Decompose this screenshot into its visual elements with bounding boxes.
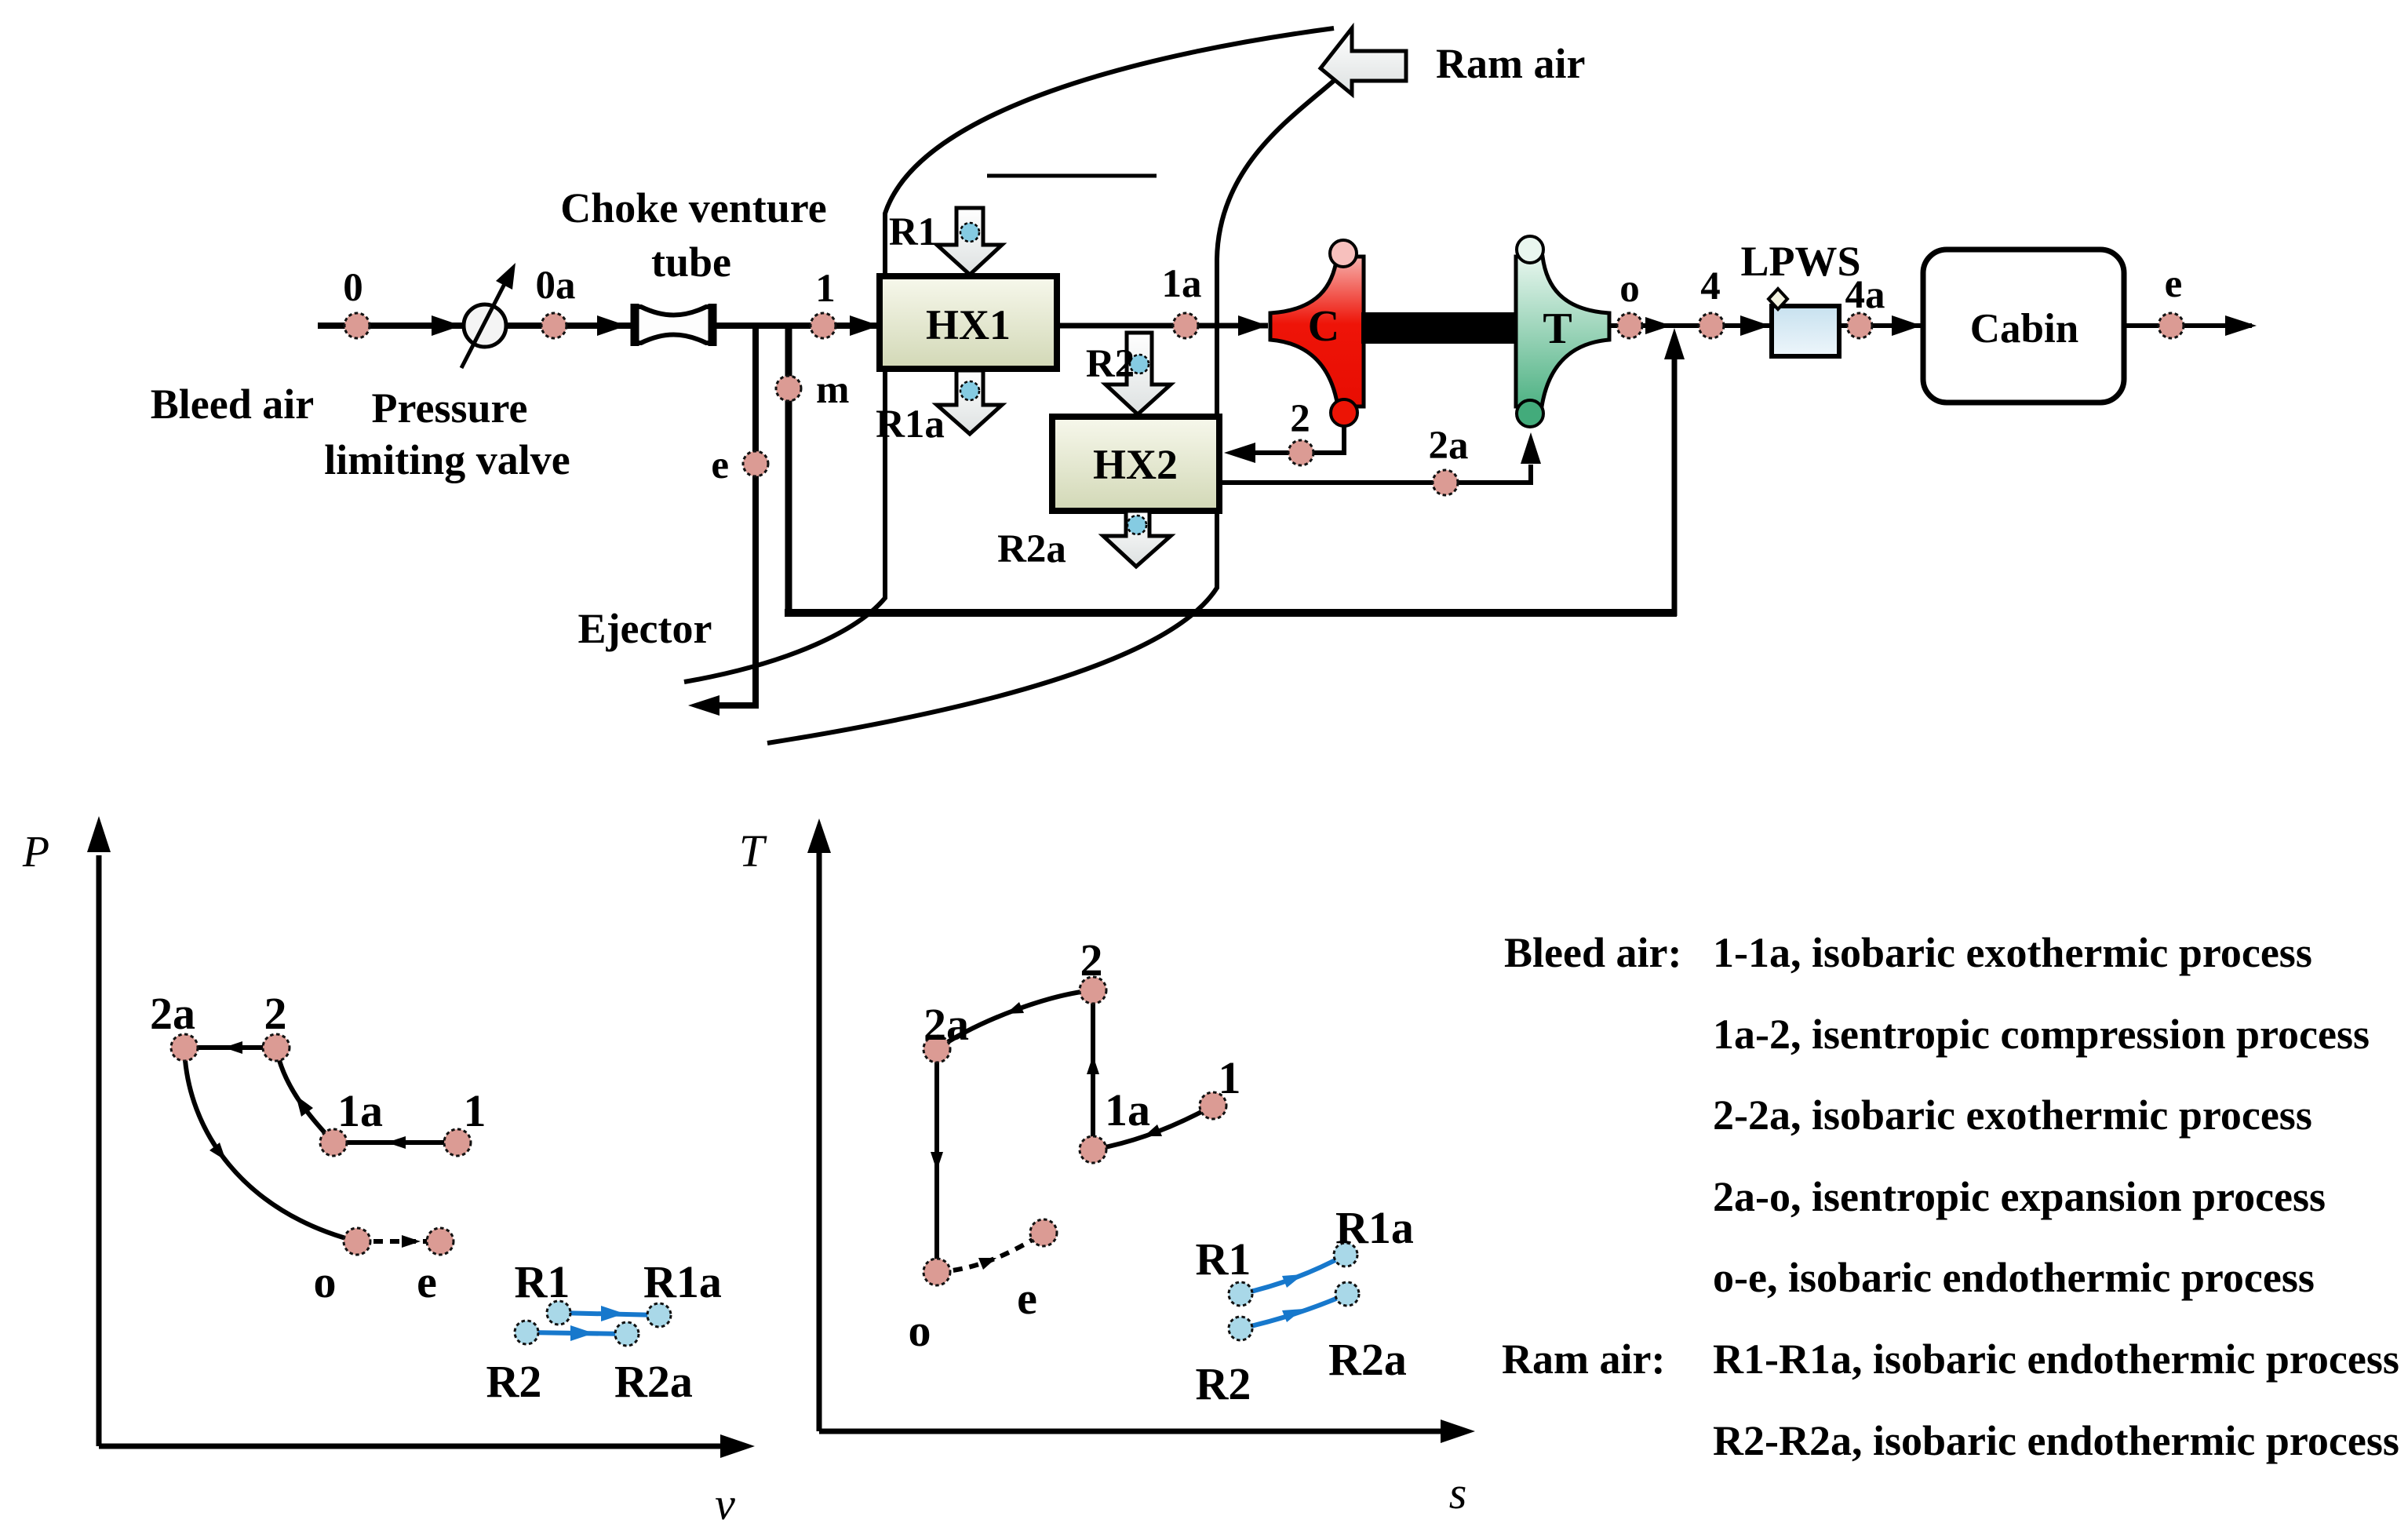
P-v ram air process R2 to R2a bbox=[526, 1325, 627, 1341]
svg-text:R1-R1a, isobaric endothermic p: R1-R1a, isobaric endothermic process bbox=[1713, 1336, 2399, 1383]
svg-text:Bleed air: Bleed air bbox=[151, 381, 314, 428]
svg-text:2: 2 bbox=[264, 988, 287, 1039]
P-v ram air process R1 to R1a bbox=[559, 1306, 659, 1321]
svg-text:Bleed air:: Bleed air: bbox=[1504, 929, 1681, 976]
svg-text:Pressure: Pressure bbox=[372, 384, 528, 432]
svg-text:1-1a, isobaric exothermic proc: 1-1a, isobaric exothermic process bbox=[1713, 929, 2312, 976]
T-s node R1 bbox=[1196, 1234, 1252, 1306]
wire: main pipe from bleed air inlet to venturi bbox=[318, 323, 634, 329]
T-s node R2 bbox=[1196, 1317, 1252, 1409]
node 4 bbox=[1699, 264, 1724, 338]
wire: HX2 to turbine inlet (node 2a line) bbox=[1219, 432, 1541, 483]
svg-text:limiting valve: limiting valve bbox=[324, 436, 570, 483]
T-s process o to e (dashed) bbox=[937, 1233, 1044, 1272]
svg-text:R1a: R1a bbox=[643, 1256, 722, 1307]
wire: pipe HX1 to compressor bbox=[1057, 323, 1268, 329]
node 1a bbox=[1162, 262, 1202, 338]
svg-text:e: e bbox=[711, 443, 729, 487]
P-v process o to e (dashed) bbox=[357, 1235, 440, 1248]
ram air duct outer wall bbox=[684, 28, 1334, 682]
T-s process 1a to 2 bbox=[1087, 990, 1099, 1150]
svg-text:0a: 0a bbox=[536, 264, 576, 308]
svg-text:R2: R2 bbox=[1196, 1358, 1251, 1409]
P-v node 2 bbox=[263, 988, 290, 1061]
svg-text:e: e bbox=[1017, 1273, 1037, 1324]
heat exchanger HX2 bbox=[1052, 417, 1219, 511]
turbine T bbox=[1516, 236, 1609, 427]
svg-text:Choke venture: Choke venture bbox=[560, 184, 827, 231]
svg-text:2: 2 bbox=[1080, 935, 1103, 986]
T-s node R2a bbox=[1328, 1282, 1407, 1385]
svg-text:HX1: HX1 bbox=[926, 301, 1011, 348]
LPWS water separator bbox=[1740, 238, 1860, 356]
flow arrow into LPWS bbox=[1740, 315, 1770, 336]
legend: ram air processes bbox=[1502, 1336, 2399, 1464]
wire: compressor outlet to HX2 (node 2 line) bbox=[1224, 424, 1344, 463]
svg-text:Cabin: Cabin bbox=[1970, 306, 2078, 352]
P-v process 2a to o bbox=[184, 1048, 357, 1241]
P-v process 1a to 2 bbox=[276, 1048, 333, 1143]
svg-text:1a: 1a bbox=[1105, 1084, 1150, 1135]
T-s node o bbox=[909, 1259, 951, 1356]
svg-text:2a: 2a bbox=[923, 999, 969, 1050]
T-s node 1a bbox=[1080, 1084, 1150, 1163]
T-s node 2 bbox=[1080, 935, 1106, 1004]
flow arrow into compressor bbox=[1238, 315, 1268, 336]
svg-text:T: T bbox=[1543, 304, 1572, 353]
wire: pipe LPWS to Cabin bbox=[1839, 323, 1923, 328]
svg-text:R2-R2a, isobaric endothermic p: R2-R2a, isobaric endothermic process bbox=[1713, 1417, 2399, 1464]
svg-text:P: P bbox=[22, 828, 49, 877]
Cabin bbox=[1923, 250, 2124, 403]
svg-text:tube: tube bbox=[651, 239, 731, 286]
node 2 bbox=[1288, 397, 1313, 465]
P-v node 1 bbox=[444, 1085, 486, 1156]
T-s node 1 bbox=[1200, 1052, 1241, 1119]
T-s node R1a bbox=[1334, 1202, 1414, 1266]
T-s ram air process R2 to R2a bbox=[1240, 1294, 1347, 1328]
svg-text:v: v bbox=[715, 1478, 735, 1529]
ram air flow arrow R2 into HX2 bbox=[1106, 333, 1171, 414]
compressor C bbox=[1270, 240, 1364, 426]
wire: pipe turbine outlet to LPWS bbox=[1609, 323, 1772, 328]
ram air flow arrow R1 into HX1 bbox=[937, 208, 1002, 275]
svg-text:o: o bbox=[314, 1256, 337, 1307]
flow arrow after node 0 bbox=[432, 315, 461, 336]
wire: ejector return line (m branch) bottom horizontal bbox=[785, 609, 1677, 617]
svg-text:0: 0 bbox=[343, 266, 363, 310]
node 0a bbox=[536, 264, 576, 338]
svg-text:Ram air:: Ram air: bbox=[1502, 1336, 1665, 1383]
choke venture tube (venturi) bbox=[634, 304, 713, 346]
pressure limiting valve bbox=[461, 263, 515, 368]
label Pressure limiting valve bbox=[324, 384, 570, 483]
P-v node o bbox=[314, 1228, 371, 1307]
flow arrow after node o bbox=[1645, 317, 1671, 334]
ram air flow arrow R1a out of HX1 bbox=[937, 370, 1002, 434]
T-s node e bbox=[1017, 1219, 1057, 1324]
svg-text:1: 1 bbox=[815, 267, 836, 311]
svg-text:R1: R1 bbox=[889, 210, 938, 254]
svg-text:HX2: HX2 bbox=[1093, 441, 1178, 488]
svg-text:1: 1 bbox=[464, 1085, 486, 1136]
wire: pipe Cabin to exit bbox=[2124, 315, 2257, 336]
P-v node R1a bbox=[643, 1256, 722, 1327]
svg-text:R2a: R2a bbox=[614, 1356, 693, 1407]
ram air duct inner wall bbox=[767, 80, 1335, 743]
T-s node 2a bbox=[923, 999, 969, 1062]
svg-text:1a: 1a bbox=[1162, 262, 1202, 306]
P-v node 2a bbox=[150, 988, 198, 1061]
wire: riser from return line up to pipe junction bbox=[1664, 328, 1685, 616]
node 1 bbox=[811, 267, 836, 338]
svg-text:s: s bbox=[1449, 1467, 1467, 1518]
node 2a bbox=[1429, 424, 1469, 495]
svg-text:R1: R1 bbox=[515, 1256, 570, 1307]
svg-text:R1: R1 bbox=[1196, 1234, 1251, 1285]
P-v process 2 to 2a bbox=[184, 1041, 276, 1054]
svg-text:e: e bbox=[2165, 262, 2183, 306]
T-s process 2 to 2a bbox=[937, 990, 1093, 1049]
svg-text:e: e bbox=[417, 1256, 437, 1307]
T-s process 2a to o bbox=[931, 1049, 943, 1272]
svg-text:o: o bbox=[909, 1305, 931, 1356]
P-v node R2a bbox=[614, 1322, 693, 1407]
svg-text:4a: 4a bbox=[1845, 273, 1885, 317]
P-v node 1a bbox=[320, 1085, 383, 1156]
svg-text:T: T bbox=[739, 825, 767, 877]
svg-text:R1a: R1a bbox=[876, 403, 945, 446]
T-s process 1 to 1a bbox=[1093, 1106, 1213, 1150]
heat exchanger HX1 bbox=[880, 276, 1057, 369]
P-v process 1 to 1a bbox=[333, 1136, 457, 1149]
P-v node R1 bbox=[515, 1256, 570, 1325]
P-v node e bbox=[417, 1228, 454, 1307]
svg-text:LPWS: LPWS bbox=[1740, 238, 1860, 285]
T-s ram air process R1 to R1a bbox=[1240, 1255, 1346, 1294]
label Choke venture tube bbox=[560, 184, 827, 286]
T-s diagram axes bbox=[739, 818, 1475, 1518]
svg-text:1a: 1a bbox=[337, 1085, 383, 1136]
node 4a bbox=[1845, 273, 1885, 338]
svg-text:2a-o, isentropic expansion pro: 2a-o, isentropic expansion process bbox=[1713, 1173, 2326, 1220]
svg-text:R2a: R2a bbox=[997, 527, 1066, 571]
wire: main pipe venturi to HX1 bbox=[713, 323, 880, 329]
svg-text:m: m bbox=[816, 368, 849, 412]
P-v diagram axes bbox=[22, 816, 755, 1529]
flow arrow after node 0a bbox=[597, 315, 627, 336]
short reference line above HX1 bbox=[987, 174, 1157, 178]
ram air flow arrow R2a out of HX2 bbox=[1103, 511, 1171, 567]
flow arrow into Cabin bbox=[1892, 315, 1922, 336]
svg-text:2: 2 bbox=[1290, 397, 1310, 441]
node 0 bbox=[343, 266, 370, 338]
svg-text:2a: 2a bbox=[150, 988, 195, 1039]
P-v node R2 bbox=[486, 1321, 542, 1407]
node e (ejector branch) bbox=[711, 443, 768, 487]
svg-text:R2a: R2a bbox=[1328, 1334, 1407, 1385]
svg-text:2-2a, isobaric exothermic proc: 2-2a, isobaric exothermic process bbox=[1713, 1092, 2312, 1139]
wire: m branch vertical bbox=[785, 326, 792, 616]
svg-text:C: C bbox=[1308, 302, 1339, 351]
svg-text:4: 4 bbox=[1700, 264, 1721, 308]
legend: bleed air processes bbox=[1504, 929, 2370, 1301]
shaft between compressor and turbine bbox=[1361, 312, 1518, 344]
svg-text:1: 1 bbox=[1219, 1052, 1241, 1103]
node m bbox=[776, 368, 849, 412]
svg-text:2a: 2a bbox=[1429, 424, 1469, 468]
svg-text:R2: R2 bbox=[1086, 342, 1135, 386]
flow arrow into HX1 bbox=[850, 315, 880, 336]
svg-text:o: o bbox=[1619, 267, 1640, 311]
node o bbox=[1617, 267, 1642, 338]
wire: e branch vertical with ejector outlet arrow bbox=[688, 326, 756, 716]
svg-text:Ram air: Ram air bbox=[1436, 40, 1585, 87]
svg-text:Ejector: Ejector bbox=[578, 605, 712, 652]
svg-text:1a-2, isentropic compression p: 1a-2, isentropic compression process bbox=[1713, 1011, 2370, 1058]
svg-text:o-e, isobaric endothermic proc: o-e, isobaric endothermic process bbox=[1713, 1254, 2315, 1301]
svg-text:R1a: R1a bbox=[1335, 1202, 1414, 1253]
svg-text:R2: R2 bbox=[486, 1356, 542, 1407]
Ram air inlet fat arrow bbox=[1321, 28, 1585, 94]
node e (cabin outlet) bbox=[2158, 262, 2184, 338]
